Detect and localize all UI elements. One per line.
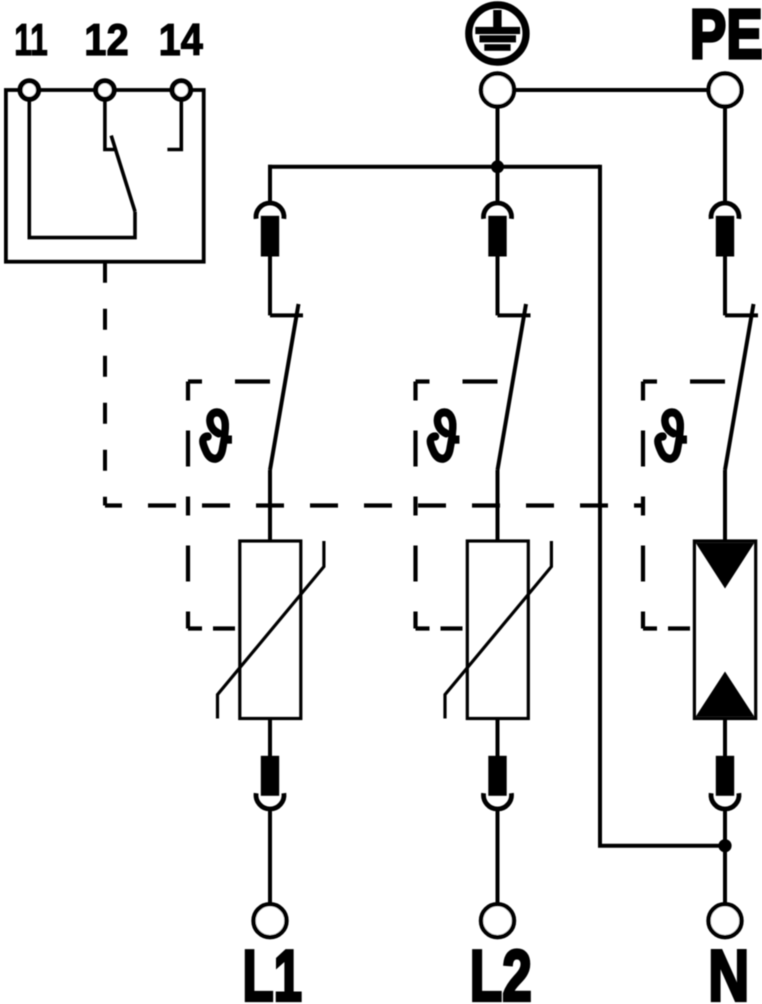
dashed mechanical link from contact block (103, 262, 107, 506)
plug-in contact top L2: contact bar (488, 216, 506, 257)
temperature symbol theta L2 (430, 412, 455, 458)
terminal L1 (254, 904, 287, 937)
terminal 14 (172, 81, 190, 99)
wire L2 to bottom terminal (496, 810, 500, 904)
plug-in contact bottom L1: arc (256, 793, 284, 809)
wire PE bypass vertical (598, 165, 602, 846)
wire L2 arrester to bottom contact (496, 719, 500, 758)
thermal monitoring box L2: top dashed edge (416, 379, 498, 383)
terminal 11 (20, 81, 38, 99)
wire L2 drop (496, 167, 500, 203)
svg-text:PE: PE (690, 0, 762, 73)
wire earth terminal to PE terminal (516, 88, 707, 92)
wire common bottom (28, 212, 136, 238)
thermal monitoring box L2: left dashed edge (413, 382, 417, 629)
thermal monitoring box L2: bottom dashed edge (416, 626, 466, 630)
svg-text:12: 12 (84, 16, 128, 65)
node junction earth/top bus (491, 160, 504, 173)
plug-in contact top N: contact bar (716, 216, 734, 257)
wire PE terminal drop to N branch (723, 109, 727, 203)
node junction bypass/N (718, 839, 731, 852)
thermal monitoring box L1: top dashed edge (188, 379, 270, 383)
wire from terminal 12 (105, 99, 116, 150)
thermal disconnector L1: fixed contact (270, 313, 303, 317)
wire L1 arrester to bottom contact (268, 719, 272, 758)
wire top bus L1 to bypass (268, 165, 600, 169)
wire N lever to arrester (723, 470, 727, 543)
PE terminal (709, 74, 742, 107)
gas discharge tube F3: body (694, 541, 755, 719)
wire L1 to bottom terminal (268, 810, 272, 904)
wire L1 drop (268, 165, 272, 203)
plug-in contact top L2: arc (484, 203, 512, 219)
wire PE bypass horizontal (598, 844, 725, 848)
svg-text:N: N (708, 936, 749, 1004)
thermal monitoring box N: left dashed edge (641, 382, 645, 629)
thermal disconnector N: lever (725, 304, 754, 470)
plug-in contact top L1: arc (256, 203, 284, 219)
svg-text:14: 14 (159, 16, 203, 65)
varistor RV2: diagonal stroke (445, 541, 551, 719)
terminal 12 (96, 81, 114, 99)
wire from terminal 11 (27, 99, 31, 238)
wire N contact to disconnector (723, 257, 727, 316)
temperature symbol theta N (658, 412, 683, 458)
wire L1 contact to disconnector (268, 257, 272, 316)
svg-text:11: 11 (14, 16, 48, 65)
wire L2 contact to disconnector (496, 257, 500, 316)
wire L1 lever to arrester (268, 470, 272, 543)
gas discharge tube F3: lower electrode (696, 672, 755, 717)
remote contact box K1 (6, 90, 204, 262)
dashed mechanical linkage bus (105, 503, 643, 507)
thermal disconnector L1: lever (270, 304, 299, 470)
plug-in contact bottom N: contact bar (716, 756, 734, 796)
wire from terminal 14 (167, 99, 181, 150)
changeover lever (111, 136, 135, 212)
wire earth terminal drop (496, 109, 500, 167)
plug-in contact bottom L1: contact bar (261, 756, 279, 796)
varistor RV2: body (467, 541, 528, 719)
plug-in contact top L1: contact bar (261, 216, 279, 257)
thermal monitoring box N: bottom dashed edge (643, 626, 693, 630)
thermal disconnector L2: lever (498, 304, 527, 470)
varistor RV1: body (240, 541, 301, 719)
thermal monitoring box N: top dashed edge (643, 379, 725, 383)
wire N arrester to bottom contact (723, 719, 727, 758)
terminal N (709, 904, 742, 937)
gas discharge tube F3: upper electrode (696, 543, 755, 589)
svg-text:L2: L2 (470, 936, 532, 1004)
protective earth symbol (469, 5, 526, 62)
thermal disconnector L2: fixed contact (498, 313, 531, 317)
thermal monitoring box L1: bottom dashed edge (188, 626, 238, 630)
thermal disconnector N: fixed contact (725, 313, 758, 317)
plug-in contact bottom N: arc (711, 793, 739, 809)
svg-text:L1: L1 (243, 936, 303, 1004)
wire L2 lever to arrester (496, 470, 500, 543)
plug-in contact bottom L2: arc (484, 793, 512, 809)
plug-in contact top N: arc (711, 203, 739, 219)
terminal L2 (481, 904, 514, 937)
earth terminal (481, 74, 514, 107)
thermal monitoring box L1: left dashed edge (186, 382, 190, 629)
varistor RV1: diagonal stroke (218, 541, 324, 719)
temperature symbol theta L1 (203, 412, 228, 458)
wire N to bottom terminal (723, 810, 727, 904)
plug-in contact bottom L2: contact bar (488, 756, 506, 796)
